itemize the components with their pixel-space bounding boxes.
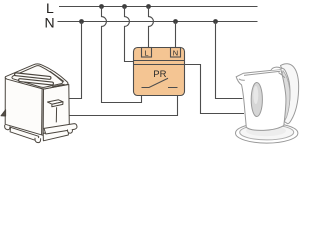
kettle handle hole shading (281, 71, 289, 120)
kettle handle (281, 64, 299, 124)
junction dot on L at x=101.5 (99, 4, 104, 9)
svg-text:L: L (144, 49, 148, 58)
svg-text:N: N (45, 15, 55, 31)
wire L to PR terminal L (hop over N) (149, 7, 154, 48)
svg-text:PR: PR (153, 69, 166, 80)
toaster lower right band (43, 129, 69, 141)
junction dot on N at x=215.5 (213, 19, 218, 24)
kettle (236, 64, 299, 143)
svg-text:N: N (173, 49, 178, 58)
toaster left-front face (5, 78, 43, 136)
wire N to toaster (69, 22, 82, 99)
kettle lid knob (271, 67, 282, 70)
toaster foot right (67, 129, 72, 133)
toaster lever (48, 100, 64, 104)
wire L rail (59, 6, 258, 8)
toaster rear foot (1, 110, 6, 116)
junction dot on L at x=124.5 (122, 4, 127, 9)
junction dot on N at x=81.5 (79, 19, 84, 24)
toaster front-right edge line (41, 89, 44, 135)
toaster slot 2 (20, 80, 52, 83)
kettle base shadow under body (246, 125, 286, 136)
toaster slot 1 (16, 74, 50, 78)
toaster (1, 64, 77, 143)
wire L to PR box left (hop over N) (125, 7, 134, 62)
terminal N of PR (171, 48, 181, 58)
toaster base ledge (44, 124, 77, 134)
toaster skirt front (10, 127, 39, 141)
kettle rim second line (244, 71, 280, 75)
toaster right face (43, 85, 69, 134)
kettle spout inner (239, 79, 245, 80)
relay PR box (134, 48, 185, 96)
toaster foot left (5, 125, 10, 130)
toaster top right hatch lines (50, 71, 65, 87)
toaster top slot plate (12, 66, 63, 88)
junction dot on L at x=148.5 (146, 4, 151, 9)
wire PR switch output to toaster (69, 88, 178, 116)
kettle body (236, 69, 286, 130)
wire N to PR terminal N (175, 22, 177, 48)
toaster top face (5, 64, 68, 89)
toaster foot front (35, 138, 41, 143)
wire PR box right to kettle (185, 65, 245, 114)
kettle base (236, 123, 298, 143)
toaster lever track (55, 107, 57, 122)
wire N rail (58, 21, 258, 23)
terminal L of PR (142, 48, 152, 58)
PR band lines (134, 60, 185, 62)
kettle handle front attach (279, 73, 285, 78)
junction dot on N at x=175.5 (173, 19, 178, 24)
wire L to PR switch input (hop over N) (102, 7, 142, 103)
kettle window (251, 83, 262, 117)
relay contact switch (142, 78, 178, 87)
wire N to kettle (216, 22, 243, 99)
